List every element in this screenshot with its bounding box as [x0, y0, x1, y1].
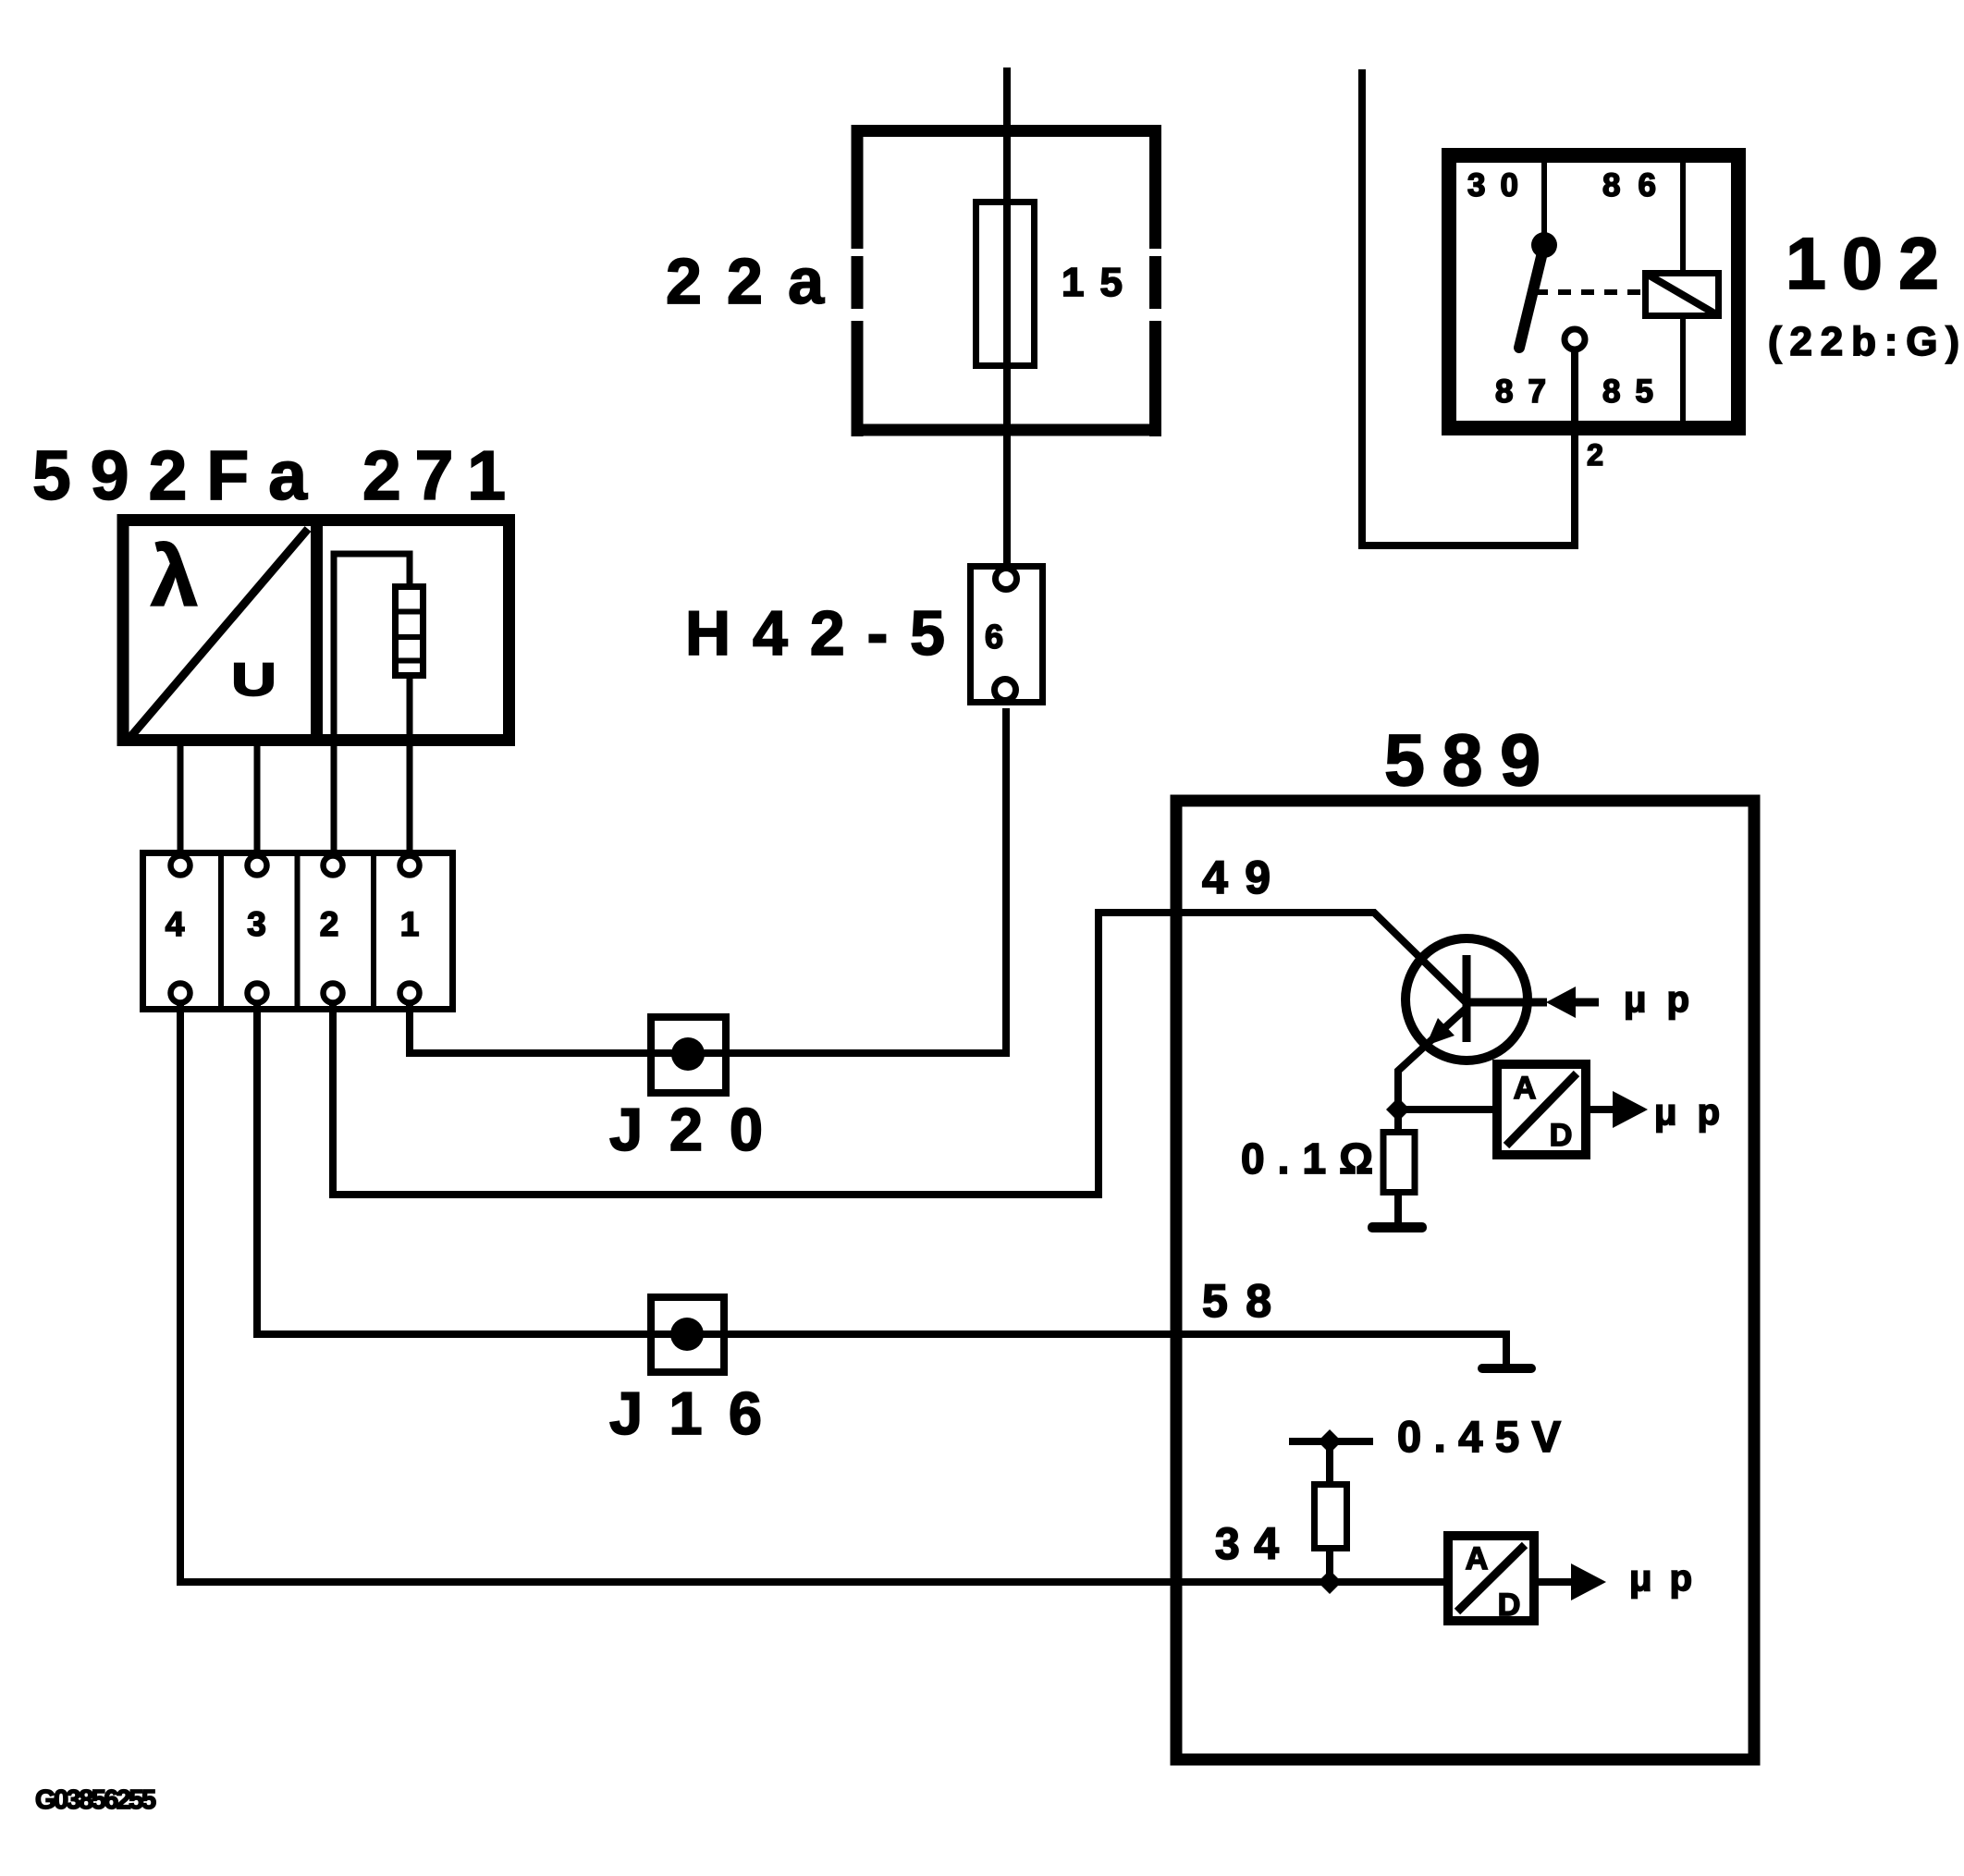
relay 102 switch lever [1519, 245, 1544, 348]
wire to relay 102 pin 2 [1362, 69, 1575, 546]
sensor lambda/U diagonal [131, 529, 308, 736]
svg-text:589: 589 [1384, 718, 1541, 801]
relay 102 coil leads 86/85 [1680, 163, 1686, 421]
wire supply feed into fuse 22a [1003, 67, 1011, 566]
svg-text:D: D [1498, 1588, 1521, 1623]
junction node on net 34 [1318, 1570, 1342, 1594]
connector H42-5 [971, 567, 1043, 703]
connector bottom pin circles [171, 984, 420, 1003]
ECU 589 box [1176, 801, 1754, 1760]
wire emitter to A/D 1 [1398, 1106, 1497, 1113]
transistor Q emitter arrow [1426, 1018, 1455, 1046]
svg-text:102: 102 [1786, 222, 1939, 304]
wire net 49 pin2 to ECU [333, 913, 1467, 1195]
svg-text:(22b:G): (22b:G) [1768, 319, 1959, 364]
oxygen sensor 592Fa/271 box [123, 521, 509, 741]
wire sensor to connector pin 4 [178, 740, 184, 854]
transistor Q bar [1463, 955, 1471, 1042]
junction node on 0.45V rail [1318, 1429, 1342, 1453]
svg-text:22a: 22a [666, 245, 825, 317]
svg-text:G03856255: G03856255 [35, 1785, 156, 1815]
splice J16 [651, 1297, 724, 1372]
heater resistor [392, 587, 426, 676]
svg-text:D: D [1550, 1118, 1573, 1153]
A/D converter 1 [1497, 1064, 1586, 1155]
svg-text:J16: J16 [609, 1379, 762, 1447]
svg-text:3: 3 [247, 905, 266, 943]
wire net 58 pin3 via J16 to ECU [257, 1004, 1506, 1364]
fuse box 22a dashed border [852, 125, 1162, 436]
svg-text:271: 271 [362, 436, 506, 514]
svg-text:2: 2 [1587, 438, 1603, 472]
transistor Q base lead with arrow to microprocessor [1467, 987, 1599, 1018]
svg-text:U: U [231, 654, 276, 705]
svg-text:2: 2 [320, 905, 339, 943]
connector top pin circles [171, 856, 420, 876]
transistor Q circle [1405, 938, 1528, 1061]
relay 102 coil [1646, 274, 1719, 316]
relay 102 actuation dashed link [1535, 289, 1642, 295]
A/D 1 output arrow [1590, 1091, 1648, 1128]
resistor 0.1 ohm [1383, 1110, 1415, 1225]
reference 0.45V rail [1289, 1438, 1373, 1445]
fuse element 15 [976, 202, 1035, 366]
transistor Q emitter lead [1398, 1008, 1467, 1104]
connector block [143, 853, 453, 1010]
wire net pin1 via J20 to H42-5 [410, 708, 1006, 1053]
ground below 0.1 ohm [1368, 1222, 1427, 1232]
svg-text:J20: J20 [609, 1096, 763, 1163]
A/D converter 2 [1448, 1536, 1534, 1623]
svg-text:A: A [1466, 1541, 1489, 1576]
splice J20 [651, 1017, 726, 1093]
relay 102 terminal 30 lead [1541, 163, 1547, 234]
relay 102 switch pivot dot [1531, 232, 1557, 258]
junction node at emitter [1386, 1097, 1410, 1122]
wire net 34 pin4 to ECU [180, 1004, 1448, 1582]
sensor cell divider [311, 514, 323, 746]
relay 102 switch contact circle [1565, 329, 1585, 349]
connector dividers [221, 850, 374, 1012]
heater loop wire [334, 554, 410, 854]
svg-text:A: A [1514, 1071, 1537, 1106]
svg-text:0.1Ω: 0.1Ω [1241, 1134, 1373, 1183]
resistor 0.45V pull-up [1315, 1441, 1347, 1582]
svg-text:λ: λ [151, 530, 198, 624]
svg-text:6: 6 [985, 618, 1003, 656]
svg-text:4: 4 [166, 905, 185, 943]
wire sensor to connector pin 3 [254, 740, 261, 854]
ground for net 58 [1478, 1364, 1536, 1373]
svg-text:1: 1 [400, 905, 420, 943]
relay 102 box [1449, 155, 1738, 428]
A/D 2 output arrow [1539, 1563, 1606, 1600]
